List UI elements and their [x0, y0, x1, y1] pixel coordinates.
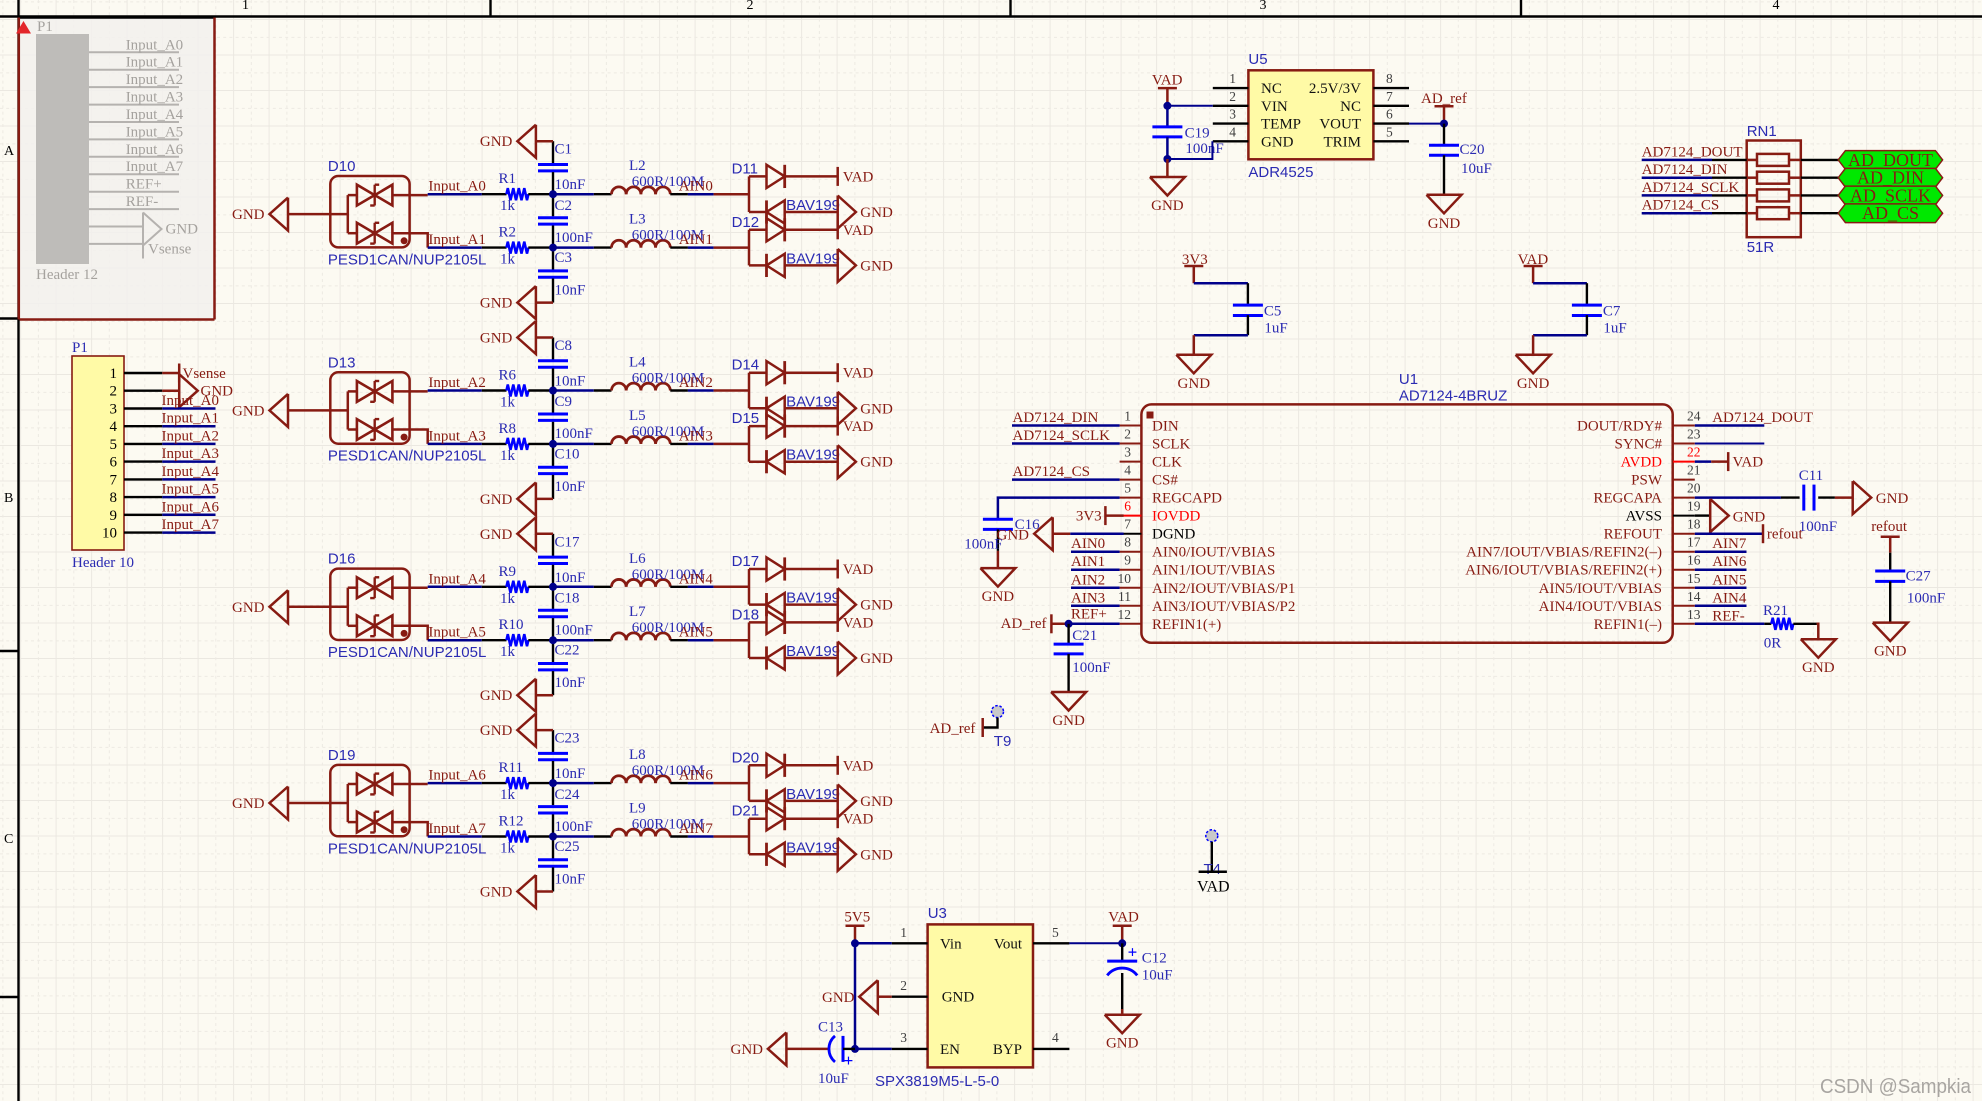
- svg-text:VAD: VAD: [843, 758, 874, 774]
- svg-text:BAV199: BAV199: [786, 839, 840, 856]
- ground GND (AVSS): [1695, 499, 1766, 532]
- svg-text:100nF: 100nF: [1072, 660, 1110, 676]
- svg-text:U1: U1: [1399, 371, 1418, 388]
- junction REF+/C21: [1065, 620, 1073, 628]
- svg-text:1k: 1k: [500, 252, 516, 268]
- svg-text:VAD: VAD: [843, 366, 874, 382]
- svg-text:AD7124_CS: AD7124_CS: [1013, 464, 1091, 480]
- svg-text:D19: D19: [328, 747, 356, 764]
- junction at C22 node: [549, 636, 557, 644]
- svg-text:C8: C8: [555, 338, 573, 354]
- svg-text:ADR4525: ADR4525: [1248, 164, 1313, 181]
- diode D16 PESD1CAN/NUP2105L: [328, 551, 486, 661]
- ground GND (C20): [1427, 195, 1462, 232]
- svg-text:10nF: 10nF: [555, 872, 586, 888]
- svg-text:REGCAPD: REGCAPD: [1152, 491, 1222, 507]
- svg-text:C5: C5: [1264, 304, 1282, 320]
- capacitor C25 10nF: [538, 837, 585, 892]
- svg-text:GND: GND: [1876, 491, 1909, 507]
- net label AD7124_SCLK (U1) / wire: [1012, 428, 1120, 444]
- resistor R8 1k: [482, 421, 553, 464]
- power port 3V3 (IOVDD): [1076, 506, 1124, 525]
- wire VOUT: [1409, 123, 1444, 125]
- ground GND (top of C17): [480, 517, 553, 550]
- watermark: [1820, 1075, 1972, 1098]
- inductor L6 600R/100M: [553, 551, 704, 587]
- svg-text:10nF: 10nF: [555, 177, 586, 193]
- ground GND (D21): [838, 838, 893, 871]
- svg-text:REFIN1(–): REFIN1(–): [1594, 617, 1662, 633]
- ground GND (C16): [980, 551, 1015, 605]
- svg-text:Input_A5: Input_A5: [162, 482, 220, 498]
- svg-text:5: 5: [1124, 481, 1131, 496]
- capacitor C24 100nF: [538, 783, 593, 836]
- power port AD_ref (U5 VOUT): [1421, 91, 1467, 124]
- svg-text:C13: C13: [818, 1019, 843, 1035]
- capacitor C12 10uF (polarized): [1107, 943, 1172, 1015]
- svg-text:AIN4: AIN4: [679, 571, 714, 587]
- net label Input_A7 (header): [162, 517, 220, 533]
- svg-text:C24: C24: [555, 787, 581, 803]
- svg-text:Vout: Vout: [994, 936, 1023, 952]
- net label AIN2 (U1) / wire: [1071, 572, 1120, 588]
- svg-text:REFOUT: REFOUT: [1604, 527, 1662, 543]
- svg-text:4: 4: [1773, 0, 1780, 13]
- net label REF- / wire: [1695, 608, 1765, 624]
- svg-text:GND: GND: [1733, 510, 1766, 526]
- inductor L9 600R/100M: [553, 801, 704, 837]
- svg-text:REF-: REF-: [126, 194, 159, 210]
- svg-text:Input_A0: Input_A0: [162, 393, 220, 409]
- svg-text:3: 3: [1260, 0, 1267, 13]
- svg-text:GND: GND: [232, 403, 265, 419]
- svg-text:GND: GND: [1106, 1036, 1139, 1052]
- net label AIN0 / wire: [679, 179, 749, 195]
- svg-text:10nF: 10nF: [555, 675, 586, 691]
- svg-text:U5: U5: [1248, 51, 1267, 68]
- svg-text:AIN4/IOUT/VBIAS: AIN4/IOUT/VBIAS: [1539, 599, 1662, 615]
- svg-text:9: 9: [1124, 553, 1131, 568]
- svg-text:Header 10: Header 10: [72, 555, 134, 571]
- junction at C17 node: [549, 583, 557, 591]
- svg-text:AD_ref: AD_ref: [1421, 91, 1467, 107]
- junction at C8 node: [549, 387, 557, 395]
- svg-text:Input_A7: Input_A7: [126, 159, 184, 175]
- svg-text:L5: L5: [629, 408, 646, 424]
- svg-text:8: 8: [1386, 71, 1393, 86]
- wire D10 internal: [330, 195, 427, 248]
- svg-text:BAV199: BAV199: [786, 590, 840, 607]
- svg-text:Input_A2: Input_A2: [428, 375, 486, 391]
- U1 left pins: [1118, 409, 1296, 633]
- svg-text:PESD1CAN/NUP2105L: PESD1CAN/NUP2105L: [328, 251, 486, 268]
- svg-text:C1: C1: [555, 142, 573, 158]
- diode D15 BAV199: [732, 410, 840, 473]
- test point T4: [1204, 830, 1222, 878]
- svg-text:PESD1CAN/NUP2105L: PESD1CAN/NUP2105L: [328, 644, 486, 661]
- svg-text:Input_A3: Input_A3: [126, 90, 184, 106]
- diode D18 BAV199: [732, 606, 840, 669]
- svg-text:Vin: Vin: [940, 936, 962, 952]
- net label AIN1 (U1) / wire: [1071, 554, 1120, 570]
- svg-text:BYP: BYP: [993, 1042, 1022, 1058]
- net label AIN4 (U1 right) / wire: [1695, 590, 1747, 606]
- svg-text:AIN5/IOUT/VBIAS: AIN5/IOUT/VBIAS: [1539, 581, 1662, 597]
- svg-text:Input_A6: Input_A6: [428, 768, 486, 784]
- power port VAD (D20): [838, 756, 874, 775]
- svg-text:AIN7: AIN7: [1712, 536, 1747, 552]
- svg-text:BAV199: BAV199: [786, 250, 840, 267]
- ground GND (bottom of C10): [480, 482, 553, 515]
- power port VAD (D21): [838, 809, 874, 828]
- port AD_DOUT: [1801, 150, 1943, 170]
- power port 5V5: [844, 910, 870, 944]
- svg-text:P1: P1: [72, 340, 88, 356]
- svg-text:8: 8: [1124, 535, 1131, 550]
- port AD_SCLK: [1801, 185, 1943, 205]
- svg-text:1k: 1k: [500, 644, 516, 660]
- svg-text:23: 23: [1687, 427, 1701, 442]
- svg-text:AIN3/IOUT/VBIAS/P2: AIN3/IOUT/VBIAS/P2: [1152, 599, 1295, 615]
- svg-text:AD7124_SCLK: AD7124_SCLK: [1013, 428, 1111, 444]
- U1 right pins: [1465, 409, 1701, 633]
- ground GND (C27): [1873, 623, 1908, 660]
- inductor L4 600R/100M: [553, 355, 704, 391]
- svg-text:AD_ref: AD_ref: [930, 721, 976, 737]
- svg-text:GND: GND: [1517, 376, 1550, 392]
- svg-text:10: 10: [1118, 571, 1132, 586]
- wire Vout net: [1069, 942, 1122, 944]
- svg-text:Input_A1: Input_A1: [162, 411, 220, 427]
- capacitor C11 100nF: [1695, 468, 1837, 535]
- svg-text:DOUT/RDY#: DOUT/RDY#: [1577, 419, 1662, 435]
- capacitor C17 10nF: [538, 534, 585, 587]
- svg-text:D12: D12: [732, 214, 760, 231]
- svg-text:R8: R8: [499, 421, 517, 437]
- svg-text:2: 2: [1229, 89, 1236, 104]
- junction at C1 node: [549, 190, 557, 198]
- svg-text:VIN: VIN: [1261, 99, 1288, 115]
- svg-text:D11: D11: [732, 160, 758, 177]
- svg-text:GND: GND: [480, 723, 513, 739]
- svg-text:2: 2: [747, 0, 754, 13]
- diode D17 BAV199: [732, 553, 840, 616]
- net label AIN6 (U1 right) / wire: [1695, 554, 1747, 570]
- svg-text:AD7124_DOUT: AD7124_DOUT: [1642, 144, 1743, 160]
- svg-text:GND: GND: [1151, 198, 1184, 214]
- net label AIN5 / wire: [679, 625, 749, 641]
- ground GND (C12): [1105, 1009, 1140, 1052]
- svg-text:CSDN @Sampkia: CSDN @Sampkia: [1820, 1075, 1972, 1098]
- svg-text:Vsense: Vsense: [183, 366, 227, 382]
- svg-text:TEMP: TEMP: [1261, 117, 1301, 133]
- svg-text:10: 10: [102, 526, 117, 542]
- diode D20 BAV199: [732, 749, 840, 812]
- resistor R2 1k: [482, 225, 553, 268]
- net label AIN7 (U1 right) / wire: [1695, 536, 1747, 552]
- power port VAD (U3 Vout): [1108, 910, 1139, 944]
- svg-text:AIN1: AIN1: [1071, 554, 1105, 570]
- svg-text:D13: D13: [328, 354, 356, 371]
- diode D19 PESD1CAN/NUP2105L: [328, 747, 486, 857]
- svg-text:C25: C25: [555, 839, 580, 855]
- inductor L2 600R/100M: [553, 158, 704, 194]
- capacitor C18 100nF: [538, 587, 593, 640]
- port AD_DIN: [1801, 168, 1943, 188]
- svg-text:0R: 0R: [1764, 635, 1782, 651]
- svg-text:AIN2/IOUT/VBIAS/P1: AIN2/IOUT/VBIAS/P1: [1152, 581, 1295, 597]
- ground GND (D17): [838, 588, 893, 621]
- svg-text:L4: L4: [629, 355, 646, 371]
- svg-text:SCLK: SCLK: [1152, 437, 1191, 453]
- svg-text:DIN: DIN: [1152, 419, 1179, 435]
- svg-text:D20: D20: [732, 749, 760, 766]
- power port VAD (decoupling C7): [1518, 252, 1549, 283]
- ground GND (bottom of C25): [480, 875, 553, 908]
- svg-text:GND: GND: [480, 527, 513, 543]
- svg-text:3: 3: [1124, 445, 1131, 460]
- wire VIN: [1167, 105, 1212, 107]
- diode D10 PESD1CAN/NUP2105L: [328, 158, 486, 268]
- power port refout (C27): [1871, 519, 1908, 553]
- ground GND (D20): [838, 784, 893, 817]
- net label AD7124_DIN / wire: [1642, 162, 1747, 178]
- svg-text:VAD: VAD: [843, 169, 874, 185]
- svg-text:GND: GND: [1428, 216, 1461, 232]
- resistor R12 1k: [482, 814, 553, 857]
- connector P1 Header 10: [72, 340, 162, 571]
- net label AIN1 / wire: [679, 232, 749, 248]
- svg-text:AD_ref: AD_ref: [1001, 616, 1047, 632]
- svg-text:1k: 1k: [500, 198, 516, 214]
- net label AIN3 / wire: [679, 428, 749, 444]
- svg-text:AIN4: AIN4: [1712, 590, 1747, 606]
- svg-text:NC: NC: [1261, 81, 1282, 97]
- svg-text:R11: R11: [499, 760, 523, 776]
- svg-text:Input_A0: Input_A0: [428, 179, 486, 195]
- net label AD7124_DIN (U1) / wire: [1012, 410, 1120, 426]
- svg-text:16: 16: [1687, 553, 1701, 568]
- svg-text:PESD1CAN/NUP2105L: PESD1CAN/NUP2105L: [328, 448, 486, 465]
- svg-text:Input_A5: Input_A5: [428, 625, 486, 641]
- svg-text:L7: L7: [629, 604, 646, 620]
- diode D13 PESD1CAN/NUP2105L: [328, 354, 486, 464]
- net label AIN7 / wire: [679, 821, 749, 837]
- svg-text:10nF: 10nF: [555, 374, 586, 390]
- inductor L8 600R/100M: [553, 747, 704, 783]
- svg-text:A: A: [4, 144, 15, 159]
- svg-text:5: 5: [1052, 925, 1059, 940]
- junction at C25 node: [549, 833, 557, 841]
- svg-text:1k: 1k: [500, 841, 516, 857]
- svg-text:BAV199: BAV199: [786, 643, 840, 660]
- svg-text:AVSS: AVSS: [1626, 509, 1662, 525]
- svg-text:12: 12: [1118, 607, 1132, 622]
- svg-text:GND: GND: [731, 1042, 764, 1058]
- svg-text:Vsense: Vsense: [148, 242, 192, 258]
- svg-text:13: 13: [1687, 607, 1701, 622]
- junction 5V5/Vin: [851, 939, 859, 947]
- svg-text:R21: R21: [1763, 603, 1788, 619]
- svg-text:Input_A6: Input_A6: [126, 142, 184, 158]
- svg-text:5V5: 5V5: [844, 910, 870, 926]
- svg-text:VAD: VAD: [1733, 455, 1764, 471]
- svg-text:GND: GND: [480, 492, 513, 508]
- svg-text:Header 12: Header 12: [36, 267, 98, 283]
- svg-text:C: C: [4, 832, 13, 847]
- svg-text:22: 22: [1687, 445, 1701, 460]
- svg-text:1: 1: [110, 366, 118, 382]
- net label Input_A6 (header): [162, 499, 220, 515]
- ground GND (D14): [838, 392, 893, 425]
- power port VAD (D11): [838, 167, 874, 186]
- power port refout (REFOUT): [1695, 524, 1804, 543]
- svg-text:AIN0: AIN0: [679, 179, 713, 195]
- power port Vsense: [162, 364, 226, 383]
- resistor R21 0R: [1763, 603, 1817, 651]
- inductor L3 600R/100M: [553, 212, 704, 248]
- net label Input_A5 (header): [162, 482, 220, 498]
- svg-text:10nF: 10nF: [555, 479, 586, 495]
- capacitor C13 10uF (polarized): [786, 1019, 855, 1086]
- svg-text:GND: GND: [1874, 644, 1907, 660]
- svg-text:Input_A6: Input_A6: [162, 499, 220, 515]
- svg-text:3: 3: [110, 402, 118, 418]
- svg-text:10nF: 10nF: [555, 283, 586, 299]
- IC U3 SPX3819M5-L-5-0: [875, 905, 1069, 1090]
- svg-text:C19: C19: [1185, 126, 1210, 142]
- svg-text:L8: L8: [629, 747, 646, 763]
- svg-text:AD7124_CS: AD7124_CS: [1642, 198, 1720, 214]
- svg-text:AIN5: AIN5: [679, 625, 713, 641]
- net label Input_A2 (header): [162, 428, 220, 444]
- capacitor C5 1uF: [1194, 283, 1288, 355]
- net label Input_A4 (header): [162, 464, 220, 480]
- svg-text:Input_A4: Input_A4: [162, 464, 220, 480]
- power port VAD (D12): [838, 220, 874, 239]
- svg-text:GND: GND: [232, 600, 265, 616]
- svg-text:100nF: 100nF: [1907, 590, 1945, 606]
- capacitor C3 10nF: [538, 248, 585, 303]
- svg-text:IOVDD: IOVDD: [1152, 509, 1200, 525]
- svg-text:C9: C9: [555, 394, 573, 410]
- svg-text:C23: C23: [555, 731, 580, 747]
- svg-text:L6: L6: [629, 551, 646, 567]
- svg-text:1k: 1k: [500, 591, 516, 607]
- svg-text:GND: GND: [480, 885, 513, 901]
- svg-text:2: 2: [1124, 427, 1131, 442]
- svg-text:AIN3: AIN3: [679, 428, 713, 444]
- svg-text:Input_A3: Input_A3: [428, 428, 486, 444]
- svg-text:refout: refout: [1871, 519, 1908, 535]
- svg-text:7: 7: [110, 472, 118, 488]
- svg-text:24: 24: [1687, 409, 1701, 424]
- svg-text:CS#: CS#: [1152, 473, 1178, 489]
- net label Input_A1 (header): [162, 411, 220, 427]
- ground GND (C11): [1835, 481, 1909, 514]
- svg-text:Input_A5: Input_A5: [126, 124, 184, 140]
- svg-text:D16: D16: [328, 551, 356, 568]
- svg-text:4: 4: [1229, 124, 1236, 139]
- svg-text:3: 3: [900, 1030, 907, 1045]
- net label REF+ / wire: [1069, 606, 1120, 624]
- svg-text:AD7124_DIN: AD7124_DIN: [1642, 162, 1728, 178]
- wire D13 internal: [330, 391, 427, 444]
- svg-text:GND: GND: [997, 528, 1030, 544]
- resistor R10 1k: [482, 617, 553, 660]
- svg-text:C20: C20: [1460, 142, 1485, 158]
- svg-text:C21: C21: [1072, 628, 1097, 644]
- svg-text:CLK: CLK: [1152, 455, 1182, 471]
- svg-text:100nF: 100nF: [555, 623, 593, 639]
- ground GND (top of C23): [480, 714, 553, 747]
- svg-text:C12: C12: [1142, 951, 1167, 967]
- svg-text:Input_A4: Input_A4: [126, 107, 184, 123]
- svg-text:3: 3: [1229, 107, 1236, 122]
- svg-text:GND: GND: [860, 794, 893, 810]
- svg-text:GND: GND: [1261, 134, 1294, 150]
- ground GND (D11): [838, 196, 893, 229]
- svg-text:AVDD: AVDD: [1621, 455, 1663, 471]
- power port AD_ref (REFIN1+): [1001, 614, 1069, 633]
- svg-text:1uF: 1uF: [1603, 320, 1626, 336]
- svg-text:GND: GND: [982, 589, 1015, 605]
- ground GND (C13): [731, 1032, 787, 1065]
- svg-text:SYNC#: SYNC#: [1614, 437, 1662, 453]
- capacitor C21 100nF: [1054, 624, 1111, 692]
- svg-text:AIN6/IOUT/VBIAS/REFIN2(+): AIN6/IOUT/VBIAS/REFIN2(+): [1465, 563, 1662, 579]
- svg-text:AIN2: AIN2: [679, 375, 713, 391]
- svg-text:4: 4: [110, 419, 118, 435]
- svg-text:9: 9: [110, 508, 118, 524]
- diode D12 BAV199: [732, 214, 840, 277]
- svg-text:AIN6: AIN6: [679, 768, 714, 784]
- net label Input_A1 / wire: [428, 232, 486, 248]
- net label AIN0 (U1) / wire: [1071, 536, 1120, 552]
- svg-text:R1: R1: [499, 171, 517, 187]
- svg-text:4: 4: [1124, 463, 1131, 478]
- svg-text:REGCAPA: REGCAPA: [1593, 491, 1662, 507]
- net label AD7124_CS / wire: [1642, 198, 1747, 214]
- svg-text:+: +: [1128, 943, 1138, 962]
- ground GND (D18): [838, 642, 893, 675]
- svg-text:51R: 51R: [1747, 239, 1775, 256]
- power port 3V3 (decoupling C5): [1182, 252, 1208, 283]
- svg-text:C11: C11: [1799, 468, 1823, 484]
- net label AD7124_DOUT (U1) / wire: [1695, 410, 1813, 426]
- resistor R11 1k: [482, 760, 553, 803]
- svg-text:AIN7/IOUT/VBIAS/REFIN2(–): AIN7/IOUT/VBIAS/REFIN2(–): [1466, 545, 1662, 561]
- svg-text:7: 7: [1386, 89, 1393, 104]
- resistor R9 1k: [482, 564, 553, 607]
- svg-text:10nF: 10nF: [555, 766, 586, 782]
- junction Vout: [1118, 939, 1126, 947]
- ground GND (D15): [838, 445, 893, 478]
- test point T9: [983, 706, 1012, 750]
- svg-text:AIN2: AIN2: [1071, 572, 1105, 588]
- inductor L5 600R/100M: [553, 408, 704, 444]
- svg-text:C3: C3: [555, 250, 573, 266]
- svg-text:C17: C17: [555, 534, 581, 550]
- power port AD_ref (T9): [930, 718, 983, 737]
- ground GND (D16): [232, 590, 330, 623]
- power port VAD (D17): [838, 560, 874, 579]
- svg-text:+: +: [844, 1051, 854, 1070]
- net label AIN2 / wire: [679, 375, 749, 391]
- net label Input_A0 / wire: [428, 179, 486, 195]
- svg-text:U3: U3: [928, 905, 947, 922]
- svg-text:Input_A1: Input_A1: [428, 232, 486, 248]
